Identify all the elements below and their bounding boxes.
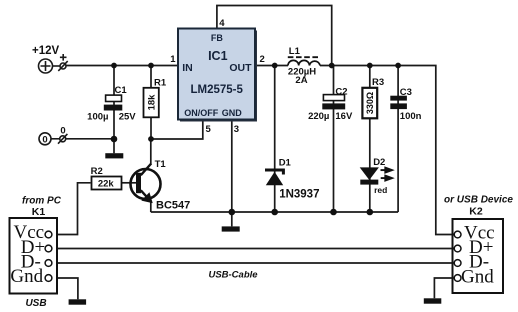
svg-text:16V: 16V — [335, 111, 353, 122]
svg-text:ON/OFF: ON/OFF — [184, 108, 218, 118]
svg-text:D2: D2 — [373, 157, 385, 168]
svg-text:GND: GND — [222, 108, 243, 118]
svg-text:C2: C2 — [335, 86, 347, 97]
svg-text:100n: 100n — [400, 111, 422, 122]
svg-text:1: 1 — [170, 54, 176, 65]
svg-text:K1: K1 — [32, 206, 46, 218]
svg-text:Gnd: Gnd — [461, 267, 494, 288]
svg-text:2: 2 — [260, 54, 265, 65]
svg-text:D1: D1 — [279, 158, 292, 169]
svg-text:red: red — [374, 185, 387, 195]
svg-text:0: 0 — [60, 126, 65, 137]
svg-text:FB: FB — [211, 33, 223, 43]
svg-text:4: 4 — [219, 18, 225, 29]
svg-text:R2: R2 — [91, 166, 103, 177]
svg-text:BC547: BC547 — [156, 200, 190, 212]
svg-text:18k: 18k — [147, 94, 158, 111]
svg-text:Gnd: Gnd — [10, 266, 43, 287]
svg-text:OUT: OUT — [229, 62, 252, 74]
svg-text:2A: 2A — [295, 75, 307, 86]
svg-text:3: 3 — [234, 124, 239, 135]
svg-text:22k: 22k — [98, 179, 115, 190]
svg-text:LM2575-5: LM2575-5 — [190, 84, 243, 96]
svg-text:T1: T1 — [155, 159, 167, 170]
svg-text:220µ: 220µ — [308, 111, 329, 122]
svg-text:C3: C3 — [400, 87, 412, 98]
svg-text:from PC: from PC — [22, 196, 62, 207]
svg-text:R3: R3 — [372, 77, 384, 88]
svg-text:+12V: +12V — [32, 45, 60, 57]
svg-text:L1: L1 — [289, 46, 301, 57]
svg-text:100µ: 100µ — [87, 111, 108, 122]
svg-text:IC1: IC1 — [208, 49, 228, 63]
svg-text:R1: R1 — [154, 78, 167, 89]
svg-text:1N3937: 1N3937 — [279, 189, 319, 201]
svg-text:K2: K2 — [469, 206, 483, 218]
svg-text:USB-Cable: USB-Cable — [208, 270, 258, 281]
svg-text:330Ω: 330Ω — [365, 92, 375, 114]
svg-text:or USB Device: or USB Device — [444, 195, 513, 206]
svg-text:C1: C1 — [115, 85, 128, 96]
svg-text:IN: IN — [182, 62, 193, 74]
svg-text:USB: USB — [25, 298, 46, 309]
svg-text:5: 5 — [206, 124, 212, 135]
svg-text:25V: 25V — [119, 111, 137, 122]
svg-text:0: 0 — [42, 134, 47, 145]
